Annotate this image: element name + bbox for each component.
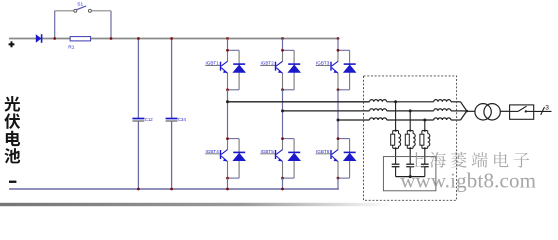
svg-text:R1: R1 xyxy=(68,44,74,50)
svg-text:IGBT3: IGBT3 xyxy=(316,61,330,66)
svg-text:C12: C12 xyxy=(145,117,154,122)
svg-text:C34: C34 xyxy=(178,117,187,122)
svg-text:IGBT4: IGBT4 xyxy=(206,149,220,154)
svg-text:IGBT5: IGBT5 xyxy=(261,149,275,154)
svg-text:IGBT2: IGBT2 xyxy=(261,61,275,66)
svg-text:S1: S1 xyxy=(77,2,83,8)
svg-text:IGBT1: IGBT1 xyxy=(206,61,220,66)
svg-text:IGBT6: IGBT6 xyxy=(316,149,330,154)
svg-text:3: 3 xyxy=(545,104,549,111)
svg-text:www.igbt8.com: www.igbt8.com xyxy=(400,169,536,193)
